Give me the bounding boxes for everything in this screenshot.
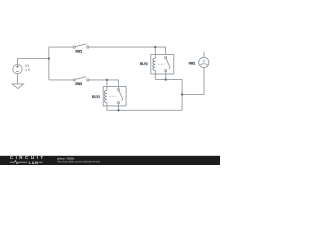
switch SW1 blade <box>76 44 87 47</box>
CircuitLab logo waveform tail <box>39 161 43 163</box>
wire stub: SW2 row down to RLY1 coil pin 1 <box>106 80 108 87</box>
relay RLY1 switch bottom lead <box>118 104 120 106</box>
svg-text:1 V: 1 V <box>25 68 31 72</box>
svg-text:LAB: LAB <box>29 160 39 165</box>
svg-text:SW2: SW2 <box>75 82 82 86</box>
wire top row: bus to SW1 left contact <box>49 46 73 48</box>
switch SW2 right contact <box>87 79 89 81</box>
wire VM1 top stub (open end) <box>203 52 205 58</box>
wire bottom rail: RLY1 coil pin 2 to right riser <box>107 106 182 110</box>
svg-text:RLY2: RLY2 <box>140 62 148 66</box>
wire top row: SW1 right contact to RLY2 switch terminal <box>89 47 166 54</box>
voltage source V1 body circle <box>13 64 22 73</box>
relay RLY2 coil lead bottom <box>154 70 156 74</box>
wire SW2 row: SW2 right contact to RLY1 switch terminal <box>89 80 119 87</box>
wire V1 positive terminal up and right to bus node <box>18 59 49 65</box>
relay RLY2 body box <box>151 55 174 75</box>
switch SW2 left contact <box>73 79 75 81</box>
relay RLY1 coil lead bottom <box>106 102 108 106</box>
relay RLY2 switch blade <box>166 59 170 69</box>
relay RLY1 body box <box>103 87 126 106</box>
junction dot: bottom rail / RLY1 switch bottom <box>117 109 119 111</box>
ground symbol <box>12 84 24 89</box>
voltmeter VM1 dial arc <box>200 64 208 65</box>
switch SW1 left contact <box>73 46 75 48</box>
junction dot: top row / RLY2 coil pin 1 <box>154 46 156 48</box>
relay RLY1 switch bottom contact <box>118 102 120 104</box>
svg-text:VM1: VM1 <box>189 61 196 65</box>
switch SW2 blade <box>76 77 87 80</box>
relay RLY2 switch bottom lead <box>165 72 167 74</box>
wire vertical bus between top row and SW2 row <box>48 47 50 80</box>
junction dot: SW2 row / RLY1 coil pin 1 <box>106 79 108 81</box>
junction dot: riser / VM1 branch <box>181 93 183 95</box>
CircuitLab logo waveform glyph <box>10 161 27 164</box>
relay RLY2 coil arcs <box>153 58 156 70</box>
svg-text:V: V <box>203 59 206 63</box>
wire stub: RLY1 switch bottom to bottom rail junction <box>118 106 120 110</box>
svg-text:SW1: SW1 <box>75 50 82 54</box>
wire V1 negative terminal down to ground <box>17 74 19 84</box>
voltmeter VM1 body circle <box>199 57 209 67</box>
relay RLY1 switch blade <box>119 91 123 101</box>
relay RLY2 coupling dashed link <box>158 63 165 65</box>
voltage source V1 plus mark <box>16 65 19 68</box>
wire stub: RLY2 switch bottom down to RLY2 bottom rail <box>165 74 167 80</box>
relay RLY1 switch top contact <box>118 89 120 91</box>
footer watermark bar <box>0 156 220 165</box>
relay RLY1 coupling dashed link <box>110 95 117 97</box>
wire branch: riser junction right and up to VM1 negative terminal <box>182 67 204 94</box>
relay RLY1 coil lead top <box>106 87 108 91</box>
voltage source V1 minus mark <box>16 70 19 72</box>
switch SW1 right contact <box>87 46 89 48</box>
svg-text:http://circuitlab.com/c/cs5wak: http://circuitlab.com/c/cs5wakv4vrecd <box>57 159 100 163</box>
wire stub: RLY2 coil pin 2 down to RLY2 bottom rail <box>154 74 156 80</box>
relay RLY2 coil lead top <box>154 55 156 59</box>
relay RLY1 switch top lead <box>118 87 120 89</box>
junction dot: bus / V1 branch <box>48 57 50 59</box>
relay RLY2 switch top contact <box>165 57 167 59</box>
relay RLY1 coil arcs <box>104 90 106 102</box>
svg-text:RLY1: RLY1 <box>92 95 100 99</box>
wire SW2 row: bus to SW2 left contact <box>49 79 73 81</box>
wire stub: top row down to RLY2 coil pin 1 <box>154 47 156 54</box>
wire right riser: bottom rail up to RLY2 bottom rail <box>155 80 182 111</box>
relay RLY2 switch bottom contact <box>165 70 167 72</box>
junction dot: RLY2 bottom rail / switch bottom <box>165 78 167 80</box>
